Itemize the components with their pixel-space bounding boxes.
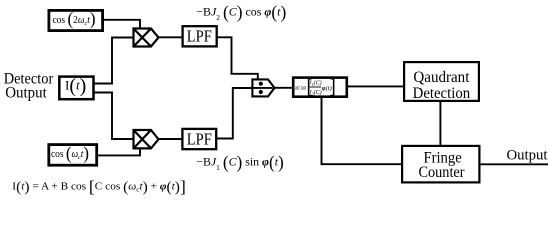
quadrant detection box [404, 62, 479, 102]
wire M1 to LPF1 [159, 36, 183, 38]
input box I(t) [59, 75, 93, 99]
wire cos(2wct) to mixer M1 [104, 20, 140, 29]
svg-text:LPF: LPF [187, 27, 212, 46]
wire I(t) to mixer M2 [94, 93, 134, 140]
svg-text:Qaudrant: Qaudrant [413, 69, 470, 86]
combiner [252, 79, 274, 96]
oscillator box cos(wct) [49, 143, 97, 165]
wire I(t) to mixer M1 [94, 38, 134, 84]
svg-text:Detection: Detection [413, 85, 471, 102]
wire quadrant detection to fringe counter [439, 101, 441, 146]
oscillator box cos(2wct) [49, 9, 103, 31]
svg-text:LPF: LPF [187, 130, 212, 149]
fringe counter box [402, 146, 479, 183]
wire combiner to arctan [275, 87, 292, 89]
svg-text:J1(C): J1(C) [309, 80, 322, 88]
wire LPF1 to combiner [217, 37, 258, 79]
wire LPF2 to combiner [216, 88, 252, 139]
svg-text:Output: Output [507, 147, 549, 163]
arctan block [293, 76, 347, 98]
mixer M2 [134, 130, 159, 148]
svg-text:J2(C): J2(C) [309, 89, 322, 97]
low-pass filter LPF1 [183, 26, 217, 46]
label Detector Output [4, 71, 54, 102]
svg-text:Counter: Counter [419, 164, 466, 181]
svg-text:]: ] [329, 76, 336, 98]
svg-text:arc tan: arc tan [295, 84, 306, 91]
low-pass filter LPF2 [182, 129, 216, 149]
wire M2 to LPF2 [159, 138, 183, 140]
output wire [481, 163, 549, 165]
wire cos(wct) to mixer M2 [98, 148, 140, 155]
wire arctan to fringe counter [322, 97, 402, 165]
mixer M1 [134, 29, 159, 47]
svg-text:Output: Output [5, 85, 47, 102]
wire arctan to quadrant detection [347, 85, 403, 87]
